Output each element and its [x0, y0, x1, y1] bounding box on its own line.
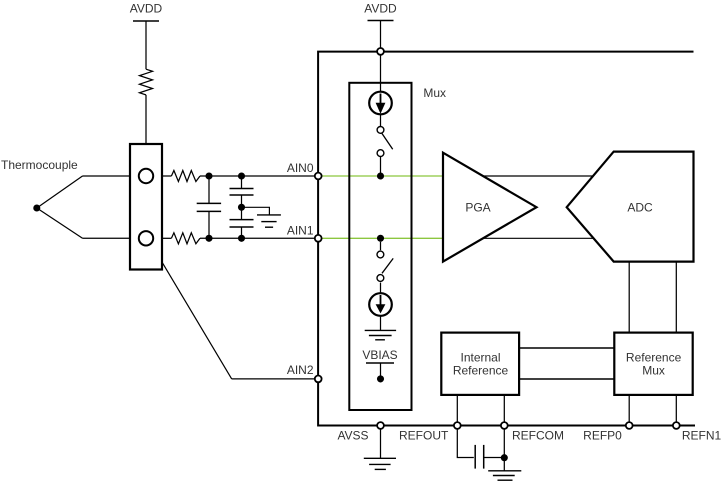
svg-text:AIN1: AIN1 — [287, 223, 314, 237]
svg-text:ADC: ADC — [627, 200, 653, 214]
svg-text:Mux: Mux — [642, 364, 665, 378]
svg-text:Mux: Mux — [423, 86, 446, 100]
svg-text:REFP0: REFP0 — [583, 429, 622, 443]
svg-text:Reference: Reference — [626, 351, 682, 365]
svg-text:AVDD: AVDD — [130, 2, 163, 16]
svg-text:REFN1: REFN1 — [682, 429, 722, 443]
svg-text:Thermocouple: Thermocouple — [1, 158, 78, 172]
svg-text:AVSS: AVSS — [337, 429, 368, 443]
svg-text:AVDD: AVDD — [364, 2, 397, 16]
svg-text:REFCOM: REFCOM — [512, 429, 564, 443]
svg-text:VBIAS: VBIAS — [362, 348, 397, 362]
svg-text:Internal: Internal — [460, 351, 500, 365]
svg-text:Reference: Reference — [453, 364, 509, 378]
svg-text:AIN2: AIN2 — [287, 363, 314, 377]
svg-text:PGA: PGA — [465, 200, 490, 214]
svg-text:AIN0: AIN0 — [287, 161, 314, 175]
svg-text:REFOUT: REFOUT — [399, 429, 449, 443]
